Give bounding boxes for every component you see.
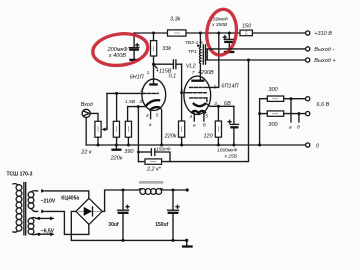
svg-text:3,3k: 3,3k (170, 17, 181, 23)
transformer ТСШ primary winding (12, 184, 22, 233)
tube VL1 6Н1П envelope (142, 79, 166, 110)
capacitor 150uf (155, 189, 179, 242)
wire 300s left junction to ground (258, 99, 267, 147)
svg-text:220к: 220к (110, 155, 123, 161)
wire ground rail (86, 144, 306, 146)
svg-text:х 25В: х 25В (224, 153, 238, 159)
choke winding (139, 189, 164, 195)
terminal 6,6В lower (306, 112, 310, 116)
svg-text:ТСШ 170-3: ТСШ 170-3 (7, 171, 33, 177)
heater arcs VL2 (191, 111, 206, 113)
terminal Выход + (306, 58, 337, 64)
svg-text:4: 4 (146, 113, 149, 119)
svg-text:б: б (203, 123, 206, 129)
svg-text:30uf: 30uf (108, 222, 119, 228)
svg-text:3: 3 (139, 99, 142, 105)
svg-text:6П14П: 6П14П (221, 83, 238, 89)
svg-text:б: б (297, 125, 300, 131)
svg-text:150uf: 150uf (155, 222, 168, 228)
svg-text:ТР1: ТР1 (188, 49, 197, 55)
ground symbol PSU (182, 239, 193, 247)
svg-text:120: 120 (204, 133, 214, 139)
wire DC plus to top rail (102, 190, 138, 211)
resistor 150 (240, 24, 252, 36)
svg-text:4: 4 (189, 114, 192, 120)
resistor 120 cathode VL2 (204, 105, 222, 147)
wire VL1 cathode node (128, 106, 147, 108)
svg-text:а: а (289, 126, 292, 131)
transformer ТСШ secondary ~210V (28, 191, 36, 212)
wire 210V top lead with arrow (36, 189, 89, 198)
capacitor 0,1 coupling (154, 60, 182, 80)
label 150мкФ х 350В (210, 16, 228, 28)
svg-text:ТВЗ-1-9.: ТВЗ-1-9. (185, 40, 204, 46)
wire Выход - (207, 48, 306, 50)
svg-text:х 400В: х 400В (108, 53, 126, 59)
label 200мкФ х 400В (107, 47, 129, 59)
svg-text:Выход +: Выход + (314, 58, 336, 64)
node +115В (152, 63, 172, 75)
resistor 3,3k (168, 17, 187, 36)
wire 6,5V top lead arrow (36, 217, 55, 221)
pin 5 wire to ground rail (156, 108, 163, 147)
svg-text:150: 150 (242, 24, 252, 30)
svg-text:х 350В: х 350В (211, 22, 228, 28)
svg-text:150пФ: 150пФ (156, 146, 171, 152)
suppressor tie (206, 98, 208, 102)
grid VL1 (pin 2) dashed (143, 92, 158, 94)
terminal Выход - (306, 47, 335, 53)
terminal +310 В (306, 31, 333, 37)
svg-text:0,1: 0,1 (169, 74, 177, 80)
capacitor 150пФ feedback (137, 146, 171, 161)
svg-text:5: 5 (205, 114, 208, 120)
wire grid lead VL2 (182, 92, 189, 94)
capacitor 30uf (108, 189, 129, 242)
ground (chassis) below 150мкФ (224, 51, 235, 53)
wire 6,5V bottom lead arrow (36, 232, 55, 236)
svg-text:1000мкФ: 1000мкФ (217, 148, 238, 154)
resistor 2,2 к* feedback (138, 159, 161, 173)
svg-text:5: 5 (156, 112, 159, 118)
svg-text:7: 7 (192, 70, 195, 76)
ground (chassis) at rail below 220к (111, 145, 121, 150)
wire VL2 grid drop (181, 64, 183, 121)
resistor 300 (upper) (267, 87, 283, 102)
svg-text:9: 9 (214, 85, 217, 91)
svg-text:1,5В: 1,5В (125, 99, 136, 105)
choke core bar (139, 181, 163, 184)
svg-text:33k: 33k (162, 46, 171, 52)
terminal 6,6В upper (306, 97, 310, 101)
tube VL2 6П14П envelope (184, 76, 211, 114)
wire feedback from cathode (137, 105, 140, 162)
wire Выход + (207, 59, 306, 62)
transformer core (203, 45, 205, 64)
svg-text:1: 1 (147, 70, 150, 76)
svg-text:2: 2 (139, 88, 143, 94)
pin 5 stub "б" (203, 113, 208, 129)
svg-text:Вход: Вход (81, 102, 93, 108)
wire top rail after choke (163, 188, 189, 191)
transformer ТР1 secondary (206, 49, 207, 60)
svg-text:+310 В: +310 В (314, 31, 332, 37)
svg-text:~210V: ~210V (41, 198, 56, 204)
wire jack to ground rail (85, 118, 87, 146)
wire VL2 cathode (206, 103, 234, 106)
svg-text:6,6 В: 6,6 В (316, 102, 329, 108)
terminal 0 (306, 143, 320, 149)
capacitor 200мкФ х 400В (129, 33, 139, 59)
cathode VL2 (pin 3) (193, 103, 206, 106)
capacitor 1000мкФ х 25В (217, 106, 239, 159)
svg-text:КЦ405а: КЦ405а (61, 196, 79, 202)
svg-text:220k: 220k (164, 133, 177, 139)
svg-text:6Н1П: 6Н1П (130, 74, 144, 80)
potentiometer 22 к (80, 93, 107, 155)
bridge rectifier КЦ405а diamond (76, 198, 102, 224)
anode VL1 (pin 1) (149, 64, 157, 84)
cathode VL1 (pin 3) (146, 100, 160, 106)
transformer ТСШ core (24, 183, 26, 235)
input connector Вход (81, 102, 93, 117)
svg-text:Выход -: Выход - (314, 47, 334, 53)
svg-text:а: а (193, 124, 196, 129)
stub heater б (297, 114, 300, 131)
grid rows VL2 dashed (190, 86, 208, 88)
wire top +310V rail (134, 32, 306, 34)
wire 6,6В upper (284, 97, 306, 100)
pin 9 screen wire (208, 32, 220, 91)
svg-text:300: 300 (268, 122, 278, 128)
capacitor 150мкФ х 350В (223, 32, 234, 52)
resistor 220k VL2 grid (164, 91, 185, 146)
wire feedback to output (162, 60, 249, 162)
resistor 390 (124, 107, 134, 155)
svg-text:390: 390 (124, 149, 134, 155)
ground (chassis) below 200мкФ (129, 59, 139, 61)
wire 210V bottom lead with arrow (36, 210, 89, 235)
svg-text:VL2: VL2 (186, 63, 196, 69)
pin 4 stub "а" (189, 113, 196, 129)
red ellipse mark 2 (204, 8, 239, 57)
wire DC minus to bottom rail (71, 211, 186, 240)
resistor 220к grid leak (110, 92, 123, 161)
transformer ТР1 ТВЗ-1-9 primary (197, 32, 202, 64)
anode VL2 (pin 7) (191, 64, 204, 81)
svg-text:а: а (149, 123, 152, 128)
wire 6,6В lower (284, 112, 306, 115)
svg-text:2,2 к*: 2,2 к* (146, 166, 162, 172)
wire wiper to grid (107, 92, 143, 94)
stub heater а (289, 99, 292, 131)
svg-text:22 к: 22 к (80, 149, 92, 155)
resistor 33k (151, 32, 172, 65)
heater arc VL1 (149, 107, 160, 111)
svg-text:~6,5V: ~6,5V (41, 228, 55, 234)
red ellipse mark 1 (91, 31, 150, 69)
svg-text:300: 300 (268, 87, 278, 93)
resistor 300 (lower) (267, 111, 283, 128)
diode inside bridge (78, 207, 101, 216)
wire jack to pot (90, 113, 98, 121)
transformer ТСШ secondary ~6,5V (28, 217, 36, 234)
pin 4 heater stub "а" (146, 110, 152, 128)
